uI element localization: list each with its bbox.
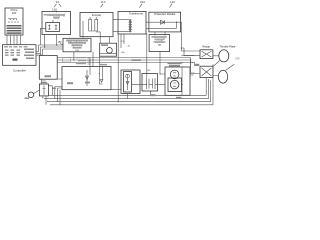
- svg-text:240: 240: [140, 0, 145, 4]
- svg-text:140: 140: [170, 0, 175, 4]
- svg-text:150: 150: [58, 41, 63, 44]
- svg-text:110: 110: [101, 0, 106, 4]
- svg-text:Throttle Plate: Throttle Plate: [219, 45, 235, 49]
- svg-text:170: 170: [235, 58, 240, 61]
- svg-text:Inverter: Inverter: [92, 13, 102, 17]
- svg-text:Controller: Controller: [13, 69, 26, 73]
- svg-text:Transformer: Transformer: [129, 12, 143, 16]
- svg-text:130: 130: [52, 8, 57, 12]
- svg-text:Range: Range: [202, 45, 210, 49]
- svg-text:100: 100: [12, 11, 17, 15]
- svg-text:10: 10: [56, 0, 60, 4]
- svg-text:Protection Diodes: Protection Diodes: [154, 12, 176, 16]
